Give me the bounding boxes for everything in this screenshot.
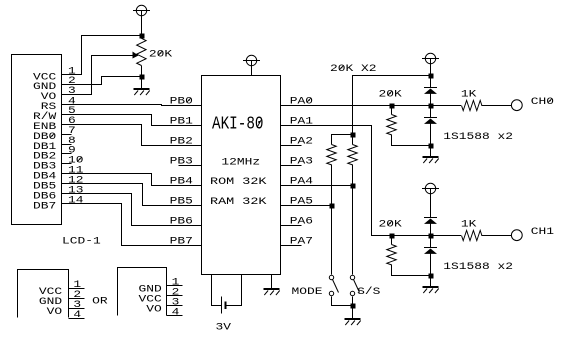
- wire right chain to S/S switch: [352, 186, 354, 275]
- wire pin6 ENB to PB2: [62, 125, 202, 146]
- node PA5 junction: [330, 204, 335, 209]
- svg-text:20K: 20K: [379, 220, 402, 231]
- svg-text:1S1588 x2: 1S1588 x2: [443, 132, 513, 143]
- wire pullup link: [332, 135, 353, 145]
- svg-text:12MHz: 12MHz: [221, 158, 260, 169]
- resistor 1K CH1: [462, 230, 482, 240]
- wire VCC rail to clamp CH0: [353, 76, 431, 135]
- wire power to clamp CH1: [430, 194, 432, 218]
- wire AKI-80 battery left: [212, 275, 222, 306]
- svg-text:RAM 32K: RAM 32K: [210, 197, 267, 208]
- svg-text:VO: VO: [47, 307, 63, 318]
- svg-text:3V: 3V: [216, 323, 232, 334]
- svg-text:PB7: PB7: [170, 236, 193, 247]
- wire PA5 to pullup: [281, 205, 332, 207]
- wire power to pot: [141, 16, 143, 36]
- svg-text:PB5: PB5: [170, 196, 193, 207]
- resistor 20K CH0: [390, 104, 395, 109]
- node clamp bottom CH1: [429, 274, 434, 279]
- svg-text:1K: 1K: [461, 90, 477, 101]
- PA7 stub: [281, 245, 302, 247]
- potentiometer VR1 20K: [141, 36, 143, 39]
- svg-text:LCD-1: LCD-1: [62, 237, 101, 248]
- battery BT1 3V: [221, 297, 223, 314]
- connector alt pinout A body: [18, 270, 69, 318]
- node CH1 line diode: [429, 234, 434, 239]
- svg-text:1K: 1K: [461, 220, 477, 231]
- node VCC tap CH0: [429, 74, 434, 79]
- diode D4 clamp down CH1: [430, 236, 432, 248]
- resistor 20K X2 left: [327, 145, 336, 165]
- svg-text:CH1: CH1: [531, 227, 554, 238]
- svg-text:VO: VO: [146, 304, 162, 315]
- connector LCD-1 body: [12, 55, 62, 225]
- wire left chain to MODE switch: [331, 206, 333, 275]
- wire S/S bottom to common: [352, 297, 354, 306]
- node pot bottom: [140, 75, 145, 80]
- svg-text:20K: 20K: [379, 90, 402, 101]
- wire PA1 to CH1 network: [281, 126, 392, 236]
- resistor 20K CH1: [390, 234, 395, 239]
- svg-text:PB2: PB2: [170, 136, 193, 147]
- wire MODE bottom to common: [332, 297, 353, 306]
- svg-text:PB1: PB1: [170, 116, 193, 127]
- IC U1 AKI-80 body: [202, 76, 281, 275]
- wire pin2 GND to potentiometer bottom node: [62, 77, 142, 85]
- terminal CH0: [511, 100, 522, 111]
- resistor 20K X2 right: [352, 135, 354, 145]
- ground switches: [352, 306, 354, 319]
- node clamp bottom CH0: [429, 144, 434, 149]
- svg-text:OR: OR: [92, 297, 108, 308]
- wire power to clamp CH0: [430, 64, 432, 88]
- wire pin14 DB7 to PB7: [62, 204, 202, 246]
- diode D3 clamp up CH1: [424, 218, 437, 224]
- svg-text:PB4: PB4: [170, 176, 193, 187]
- wire pin12 DB5 to PB5: [62, 184, 202, 206]
- svg-text:14: 14: [68, 195, 84, 206]
- node pot top: [140, 34, 145, 39]
- alt B pin ticks: [167, 285, 183, 287]
- power symbol CH1: [422, 183, 439, 193]
- svg-text:PB3: PB3: [170, 156, 193, 167]
- PB3 stub: [179, 165, 202, 167]
- alt A pin ticks: [69, 288, 85, 290]
- terminal CH1: [511, 230, 522, 241]
- svg-text:PB0: PB0: [170, 96, 193, 107]
- svg-text:MODE: MODE: [292, 287, 323, 298]
- svg-text:ROM 32K: ROM 32K: [210, 177, 267, 188]
- svg-text:1S1588 x2: 1S1588 x2: [443, 262, 513, 273]
- diode D2 clamp down CH0: [430, 106, 432, 118]
- wire PA4 to pullup: [281, 185, 353, 187]
- node pullup link: [351, 133, 356, 138]
- pin 9 stub: [62, 153, 72, 155]
- node CH0 line diode: [429, 104, 434, 109]
- wire pin3 VO to potentiometer wiper: [62, 56, 133, 95]
- svg-text:3: 3: [68, 86, 76, 97]
- node switch common: [351, 304, 356, 309]
- pin 10 stub: [62, 163, 72, 165]
- svg-text:S/S: S/S: [357, 286, 380, 298]
- wire power to AKI-80: [251, 66, 253, 76]
- power symbol CH0: [422, 53, 439, 63]
- ground clamp CH1: [430, 276, 432, 287]
- svg-text:DB7: DB7: [33, 201, 56, 212]
- diode D1 clamp up CH0: [424, 88, 437, 94]
- connector alt pinout B body: [118, 268, 167, 316]
- power symbol top-left: [133, 5, 150, 15]
- svg-text:4: 4: [172, 308, 180, 319]
- slashed zero marks: [50, 51, 552, 226]
- switch S/S: [350, 275, 354, 279]
- power symbol AKI-80: [243, 55, 260, 65]
- wire pin13 DB6 to PB6: [62, 194, 202, 226]
- svg-text:PB6: PB6: [170, 216, 193, 227]
- wire pin1 VCC to potentiometer top: [62, 36, 142, 75]
- wire pin11 DB4 to PB4: [62, 174, 202, 186]
- PA2 stub: [281, 145, 302, 147]
- ground AKI-80: [271, 275, 273, 289]
- wire AKI-80 battery right: [227, 275, 242, 306]
- resistor 1K CH0: [462, 100, 482, 110]
- wire pin4 RS to PB0: [62, 105, 202, 106]
- ground clamp CH0: [430, 146, 432, 157]
- ground pot: [141, 77, 143, 89]
- pin 8 stub: [62, 144, 72, 146]
- potentiometer wiper arrow: [133, 52, 139, 59]
- PA3 stub: [281, 165, 302, 167]
- svg-text:20K: 20K: [149, 50, 172, 61]
- svg-text:AKI-80: AKI-80: [212, 115, 264, 135]
- PA6 stub: [281, 225, 302, 227]
- svg-text:CH0: CH0: [531, 97, 554, 108]
- node PA4 junction: [351, 184, 356, 189]
- pin 7 stub: [62, 134, 72, 136]
- wire CH1 line: [392, 235, 462, 237]
- svg-text:4: 4: [73, 310, 81, 321]
- switch MODE: [329, 275, 333, 279]
- wire pin5 R/W to PB1: [62, 115, 202, 126]
- wire PA0 to CH0 network: [281, 105, 462, 107]
- svg-text:20K X2: 20K X2: [330, 64, 377, 75]
